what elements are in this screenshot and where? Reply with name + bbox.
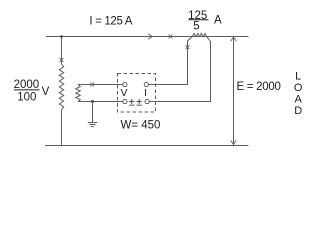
wattmeter terminal I	[144, 82, 148, 86]
CT secondary left lead wire	[148, 37, 192, 85]
polarity mark on PT primary	[60, 58, 64, 62]
PT primary bottom drop wire	[61, 110, 63, 146]
svg-text:E = 2000: E = 2000	[237, 81, 281, 93]
PT primary top drop wire	[61, 37, 63, 65]
junction dot at top line	[60, 35, 63, 38]
PT primary winding	[59, 64, 63, 110]
CT secondary right lead wire	[149, 36, 210, 102]
svg-text:O: O	[294, 82, 303, 94]
svg-text:V: V	[42, 86, 50, 98]
wattmeter dashed box	[118, 74, 156, 113]
E measurement arrow line	[233, 37, 235, 145]
svg-text:I = 125 A: I = 125 A	[89, 15, 132, 27]
bottom line conductor wire	[45, 145, 249, 147]
svg-text:100: 100	[17, 92, 36, 104]
svg-text:2000: 2000	[14, 79, 40, 91]
svg-text:±: ±	[129, 96, 135, 108]
svg-text:A: A	[214, 14, 222, 26]
PT secondary winding	[76, 85, 81, 102]
CT primary winding	[192, 33, 206, 36]
ground junction dot	[91, 100, 94, 103]
wattmeter terminal plus-minus right	[145, 99, 149, 103]
svg-text:5: 5	[193, 21, 199, 33]
PT secondary top wire	[78, 84, 123, 86]
current direction arrow	[148, 34, 152, 40]
wattmeter terminal V	[123, 82, 127, 86]
polarity mark on top line	[169, 35, 173, 39]
svg-text:L: L	[295, 71, 301, 83]
PT secondary bottom wire	[78, 101, 123, 103]
wattmeter terminal plus-minus left	[123, 99, 127, 103]
svg-text:D: D	[294, 105, 302, 117]
polarity mark on CT left lead	[186, 45, 190, 49]
svg-text:A: A	[295, 94, 303, 106]
polarity mark on PT secondary	[90, 83, 94, 87]
svg-text:I: I	[144, 87, 147, 99]
ground symbol	[88, 123, 98, 127]
svg-text:±: ±	[136, 96, 142, 108]
ground lead wire	[92, 102, 94, 123]
top line conductor wire	[46, 36, 249, 38]
svg-text:W= 450: W= 450	[121, 119, 161, 131]
svg-text:V: V	[120, 87, 127, 99]
